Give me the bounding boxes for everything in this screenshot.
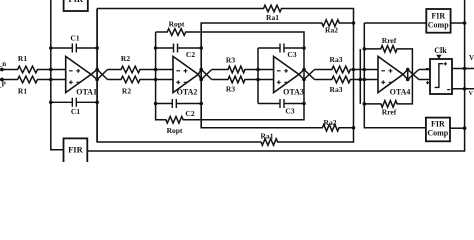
wire OTA2 output column (200, 23, 202, 128)
resistor R1 (top input) (2, 66, 66, 73)
op-amp OTA1 (66, 56, 91, 92)
svg-text:Clk: Clk (434, 46, 447, 55)
svg-text:OTA1: OTA1 (76, 88, 97, 97)
svg-text:FIR: FIR (431, 120, 445, 129)
label OTA1 (76, 88, 97, 97)
label Ra3 top (330, 55, 343, 64)
svg-text:Ra1: Ra1 (261, 132, 274, 141)
label C3 top (287, 50, 296, 59)
label C2 top (186, 50, 195, 59)
op-amp OTA3 (274, 56, 299, 92)
svg-text:OTA2: OTA2 (177, 88, 198, 97)
wire OTA1 output column (96, 9, 98, 143)
wire OTA4 output column (407, 70, 409, 80)
node OTA3 input junctions (256, 68, 260, 82)
resistor R2 (bottom) (108, 76, 174, 83)
resistor R3 (top) (212, 66, 274, 73)
svg-text:FIR: FIR (68, 144, 84, 154)
svg-text:OTA3: OTA3 (283, 88, 304, 97)
label Rref bottom (382, 108, 397, 117)
label R1 top (18, 54, 27, 63)
svg-text:R2: R2 (121, 54, 130, 63)
svg-text:C1: C1 (70, 34, 79, 43)
node bus junctions (463, 21, 467, 130)
label R1 bottom (18, 87, 27, 96)
label Clk (434, 46, 447, 55)
comparator polarity marks (426, 62, 450, 90)
svg-text:Ra2: Ra2 (325, 26, 338, 35)
op-amp OTA4 (378, 56, 403, 92)
svg-text:R1: R1 (18, 54, 27, 63)
label R2 top (121, 54, 130, 63)
capacitor C1 (bottom) (51, 98, 97, 107)
wire resonator loop with Ropt resistors (156, 29, 304, 123)
svg-text:Rref: Rref (382, 36, 397, 45)
wire FIR-comp column (364, 23, 426, 128)
label R3 top (226, 56, 235, 65)
FIR DAC box (bottom) (64, 138, 88, 168)
node middle column junction (359, 78, 363, 82)
label C3 bottom (285, 106, 294, 115)
label C1 top (70, 34, 79, 43)
input terminal Vin_P (0, 78, 7, 89)
label R2 bottom (122, 87, 131, 96)
label OTA4 (390, 88, 411, 97)
node OTA2 output junctions (199, 46, 203, 105)
node OTA2 input junctions (154, 46, 158, 105)
input terminal Vin_n (0, 60, 6, 71)
svg-text:Rref: Rref (382, 108, 397, 117)
label Ra2 bottom (324, 118, 337, 127)
node OTA3 output junctions (302, 46, 306, 105)
svg-text:C3: C3 (287, 50, 296, 59)
node summing column junctions (352, 21, 356, 129)
wire FIR Comp bottom to bus (450, 127, 465, 129)
svg-text:OTA4: OTA4 (390, 88, 411, 97)
svg-text:Ropt: Ropt (169, 20, 185, 29)
capacitor C2 (bottom) (156, 99, 202, 108)
svg-text:C3: C3 (285, 106, 294, 115)
svg-text:Ra1: Ra1 (266, 13, 279, 22)
resistor R1 (bottom input) (2, 76, 66, 83)
resistor R3 (bottom) (212, 76, 274, 83)
wire comparator outputs (452, 69, 474, 89)
clock input arrow (436, 55, 441, 59)
svg-text:Comp: Comp (428, 21, 449, 30)
wire output feedback bus (87, 0, 464, 151)
capacitor C2 (top) (156, 44, 202, 53)
svg-text:C2: C2 (185, 109, 194, 118)
wire OTA3 input column (257, 48, 259, 104)
svg-text:V: V (469, 54, 474, 62)
label Rref top (382, 36, 397, 45)
svg-text:R3: R3 (226, 85, 235, 94)
resistor Ra3 (bottom) (315, 76, 379, 83)
label Ra3 bottom (330, 85, 343, 94)
svg-text:R1: R1 (18, 87, 27, 96)
svg-text:C1: C1 (71, 107, 80, 116)
node OTA4 output junctions (406, 68, 410, 82)
svg-text:R2: R2 (122, 87, 131, 96)
wire input-FIR column (51, 0, 64, 150)
wire middle column (359, 49, 361, 104)
label C2 bottom (185, 109, 194, 118)
svg-text:Comp: Comp (427, 129, 448, 138)
svg-text:Ropt: Ropt (167, 126, 183, 135)
capacitor C3 (top) (258, 44, 304, 53)
resistor Ra3 (top) (315, 66, 379, 73)
latch comparator U5 (430, 59, 452, 94)
node input column junctions (49, 46, 53, 104)
label OTA3 (283, 88, 304, 97)
svg-text:_P: _P (0, 81, 7, 89)
wire OTA4 output crossover (403, 70, 419, 80)
label Ra2 top (325, 26, 338, 35)
svg-text:_n: _n (0, 60, 6, 68)
svg-text:R3: R3 (226, 56, 235, 65)
wire OTA2 output crossover (198, 70, 211, 80)
svg-text:V: V (469, 91, 474, 97)
label Ra1 top (266, 13, 279, 22)
wire OTA3 output crossover (299, 70, 315, 80)
svg-text:Ra2: Ra2 (324, 118, 337, 127)
svg-text:C2: C2 (186, 50, 195, 59)
label Ropt bottom (167, 126, 183, 135)
svg-text:FIR: FIR (431, 12, 445, 21)
node FIR-comp column junctions (363, 47, 367, 106)
wire FIR Comp top to bus (451, 22, 465, 24)
label OTA2 (177, 88, 198, 97)
label output V- (cut) (469, 91, 474, 97)
comparator clock step symbol (435, 64, 443, 88)
svg-text:Ra3: Ra3 (330, 85, 343, 94)
svg-text:Ra3: Ra3 (330, 55, 343, 64)
node OTA1 output junctions (95, 46, 99, 104)
wire comparator inputs (419, 70, 430, 80)
label Ropt top (169, 20, 185, 29)
label Ra1 bottom (261, 132, 274, 141)
wire OTA1 output crossover (91, 70, 108, 80)
svg-text:FIR: FIR (68, 0, 84, 4)
capacitor C1 (top) (51, 44, 97, 53)
wire Ra2 feedback loop with resistors (201, 20, 353, 131)
resistor R2 (top) (108, 66, 174, 73)
label C1 bottom (71, 107, 80, 116)
resistor Rref (top) (364, 46, 412, 108)
capacitor C3 (bottom) (258, 99, 304, 108)
label output V+ (cut) (469, 54, 474, 62)
op-amp OTA2 (173, 56, 198, 92)
FIR Comp DAC box (bottom) (426, 118, 450, 142)
wire Ra1 feedback loop with resistors (97, 5, 353, 145)
FIR DAC box (top, cut off) (64, 0, 88, 11)
FIR Comp DAC box (top) (426, 9, 450, 33)
label R3 bottom (226, 85, 235, 94)
